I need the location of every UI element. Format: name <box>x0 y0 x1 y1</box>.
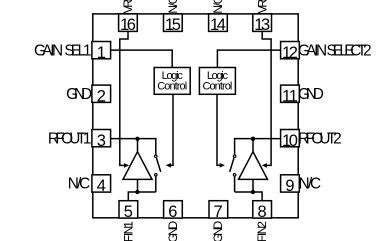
svg-text:6: 6 <box>168 203 177 221</box>
svg-text:2: 2 <box>97 87 106 105</box>
svg-text:3: 3 <box>97 132 106 150</box>
svg-text:1: 1 <box>289 87 298 105</box>
svg-text:D: D <box>313 86 324 103</box>
svg-text:G: G <box>211 233 225 241</box>
svg-text:1: 1 <box>97 44 106 62</box>
svg-text:4: 4 <box>217 16 226 34</box>
svg-text:7: 7 <box>214 203 223 221</box>
svg-text:5: 5 <box>172 16 181 34</box>
svg-text:C: C <box>211 0 225 4</box>
svg-text:1: 1 <box>83 42 92 59</box>
svg-text:C: C <box>79 176 90 193</box>
svg-text:C: C <box>310 176 321 193</box>
svg-text:F: F <box>255 235 269 241</box>
svg-text:G: G <box>166 233 180 241</box>
svg-text:9: 9 <box>285 177 294 195</box>
svg-text:Control: Control <box>202 81 232 93</box>
svg-text:6: 6 <box>127 16 136 34</box>
svg-text:C: C <box>166 0 180 4</box>
svg-text:2: 2 <box>333 130 342 147</box>
svg-text:Control: Control <box>157 81 187 93</box>
svg-text:2: 2 <box>289 44 298 62</box>
svg-text:4: 4 <box>97 177 106 195</box>
svg-text:N: N <box>316 42 327 59</box>
svg-text:0: 0 <box>289 132 298 150</box>
svg-text:F: F <box>121 235 135 241</box>
svg-text:N: N <box>52 42 63 59</box>
svg-text:1: 1 <box>83 130 92 147</box>
svg-text:3: 3 <box>261 16 270 34</box>
svg-text:D: D <box>81 86 92 103</box>
svg-text:8: 8 <box>258 203 267 221</box>
svg-text:E: E <box>121 0 135 1</box>
svg-text:2: 2 <box>363 42 372 59</box>
svg-text:E: E <box>255 0 269 1</box>
svg-text:5: 5 <box>124 203 133 221</box>
